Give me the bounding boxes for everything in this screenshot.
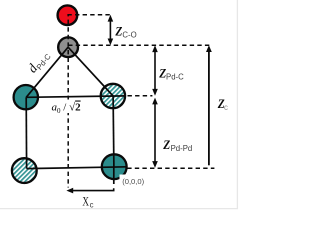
bond C to Pd top-right	[68, 47, 113, 96]
label d_Pd-C (rotated along bond)	[24, 47, 53, 77]
atom Pd bottom-left (hatched)	[12, 158, 37, 183]
svg-text:(0,0,0): (0,0,0)	[122, 177, 144, 186]
square left edge	[25, 97, 27, 168]
atom Pd top-left (solid teal)	[14, 85, 38, 109]
vertical dashed axis through O and C	[67, 15, 69, 188]
svg-text:Pd-Pd: Pd-Pd	[171, 144, 193, 153]
dashed level line at Pd second layer	[127, 167, 214, 169]
atom Pd bottom-right (solid teal)	[102, 154, 127, 179]
white label box a0	[50, 100, 83, 114]
svg-text:Pd-C: Pd-C	[166, 73, 184, 82]
arrow X_c	[66, 188, 113, 194]
dashed level line at C	[68, 44, 211, 46]
arrow Z_Pd-Pd	[152, 98, 158, 168]
frame bottom border	[0, 208, 238, 210]
bond C to Pd top-left	[26, 47, 68, 97]
dashed level line at O	[67, 14, 113, 16]
right edge extension below Pd	[113, 167, 115, 184]
dashed level line at Pd first layer	[128, 95, 153, 97]
atom C (gray)	[58, 37, 78, 57]
white label box origin	[120, 175, 146, 187]
arrow Z_c	[206, 45, 212, 165]
svg-text:Z: Z	[162, 138, 170, 152]
arrow Z_Pd-C	[152, 45, 158, 95]
svg-text:X: X	[82, 194, 89, 208]
frame right border	[236, 0, 238, 209]
svg-text:C-O: C-O	[122, 30, 136, 39]
arrow Z_C-O	[108, 15, 114, 46]
svg-text:c: c	[224, 103, 228, 112]
square top edge	[26, 96, 125, 97]
atom O (red)	[58, 5, 78, 25]
square bottom edge	[27, 167, 127, 169]
square right edge	[112, 96, 115, 167]
svg-text:a0 / √2: a0 / √2	[52, 102, 82, 116]
atom Pd top-right (hatched)	[101, 84, 125, 108]
svg-text:c: c	[90, 201, 94, 210]
